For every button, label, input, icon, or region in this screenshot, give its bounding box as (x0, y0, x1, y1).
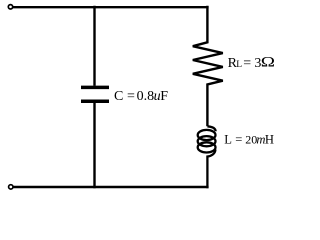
svg-text:Ω: Ω (261, 54, 275, 71)
svg-text:RL=3: RL=3 (228, 56, 262, 71)
svg-text:L=20mH: L=20mH (224, 133, 274, 147)
svg-text:C=0.8uF: C=0.8uF (114, 89, 168, 104)
